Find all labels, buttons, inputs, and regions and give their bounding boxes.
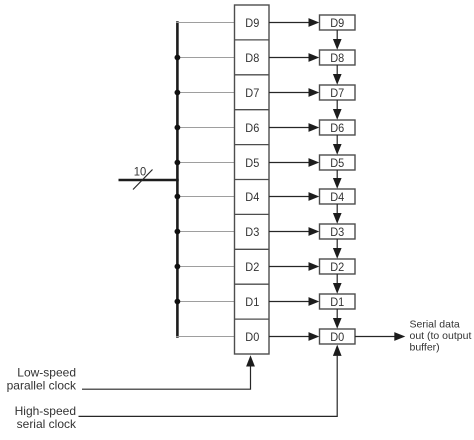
junction dot at bus tap D6 [175,125,181,131]
wire: low-speed parallel clock [82,366,251,389]
svg-text:D5: D5 [245,156,259,170]
wire: shift path D1 to D0 [336,309,338,320]
wire: serial data output [355,336,395,338]
svg-text:D6: D6 [330,121,344,135]
svg-text:D7: D7 [330,86,344,100]
junction dot at bus tap D1 [175,299,181,305]
wire: bus tap to register cell D9 [176,22,234,24]
svg-text:D3: D3 [330,225,344,239]
svg-text:D7: D7 [245,86,259,100]
svg-text:D9: D9 [245,16,259,30]
svg-text:D9: D9 [330,16,344,30]
svg-text:High-speed: High-speed [15,404,76,418]
svg-text:D8: D8 [245,51,259,65]
wire: bus tap to register cell D6 [176,127,234,129]
parallel input register U1 (10-bit) [235,5,270,354]
wire: bus tap to register cell D3 [176,231,234,233]
shift stage box D7 [320,85,356,100]
register cell divider 2 [235,74,270,76]
svg-text:D0: D0 [245,330,259,344]
wire: high-speed serial clock [79,356,338,417]
wire: shift path D6 to D5 [336,135,338,146]
svg-text:serial clock: serial clock [17,417,77,431]
wire: bus tap to register cell D4 [176,196,234,198]
shift stage box D3 [320,224,356,239]
junction dot at bus tap D7 [175,90,181,96]
wire: shift path D3 to D2 [336,239,338,250]
wire: bus tap to register cell D2 [176,266,234,268]
wire: 10-bit bus input feed [119,179,179,181]
shift stage box D6 [320,120,356,135]
svg-text:D0: D0 [330,330,344,344]
shift stage box D4 [320,189,356,204]
wire: parallel load arrow D1 [269,301,310,303]
wire: bus tap to register cell D5 [176,162,234,164]
svg-text:Serial data: Serial data [410,319,460,331]
svg-text:out (to output: out (to output [410,330,472,342]
wire: bus tap to register cell D1 [176,301,234,303]
svg-text:buffer): buffer) [410,342,440,354]
wire: parallel load arrow D9 [269,22,310,24]
svg-text:D2: D2 [330,260,344,274]
wire: parallel load arrow D3 [269,231,310,233]
junction dot at bus tap D8 [175,55,181,61]
svg-text:10: 10 [134,165,147,179]
shift stage box D0 [320,329,356,344]
svg-text:D1: D1 [330,295,344,309]
svg-text:D6: D6 [245,121,259,135]
wire: parallel load arrow D7 [269,92,310,94]
junction dot at bus tap D5 [175,160,181,166]
register cell divider 6 [235,213,270,215]
wire: shift path D8 to D7 [336,65,338,76]
svg-text:D4: D4 [245,190,259,204]
svg-text:D4: D4 [330,190,344,204]
wire: bus tap to register cell D8 [176,57,234,59]
wire: bus tap to register cell D7 [176,92,234,94]
register cell divider 4 [235,144,270,146]
wire: shift path D9 to D8 [336,30,338,41]
register cell divider 3 [235,109,270,111]
shift stage box D5 [320,155,356,170]
register cell divider 7 [235,248,270,250]
svg-text:D1: D1 [245,295,259,309]
register cell divider 8 [235,283,270,285]
svg-text:D3: D3 [245,225,259,239]
wire: parallel load arrow D4 [269,196,310,198]
junction dot at bus tap D4 [175,194,181,200]
wire: parallel load arrow D5 [269,162,310,164]
svg-text:D5: D5 [330,156,344,170]
svg-text:D8: D8 [330,51,344,65]
wire: shift path D5 to D4 [336,170,338,180]
shift stage box D1 [320,294,356,309]
junction dot at bus tap D2 [175,264,181,270]
wire: shift path D2 to D1 [336,274,338,285]
register cell divider 9 [235,318,270,320]
shift stage box D8 [320,50,356,65]
wire: parallel load arrow D6 [269,127,310,129]
wire: parallel load arrow D8 [269,57,310,59]
wire: vertical parallel bus [176,21,179,338]
svg-text:Low-speed: Low-speed [17,366,76,380]
wire: shift path D7 to D6 [336,100,338,111]
shift stage box D9 [320,15,356,30]
shift stage box D2 [320,259,356,274]
svg-text:D2: D2 [245,260,259,274]
wire: bus tap to register cell D0 [176,336,234,338]
wire: parallel load arrow D0 [269,336,310,338]
svg-text:parallel clock: parallel clock [7,379,77,393]
junction dot at bus tap D3 [175,229,181,235]
bus width marker slash [133,170,153,190]
register cell divider 5 [235,179,270,181]
wire: parallel load arrow D2 [269,266,310,268]
wire: shift path D4 to D3 [336,204,338,215]
register cell divider 1 [235,39,270,41]
